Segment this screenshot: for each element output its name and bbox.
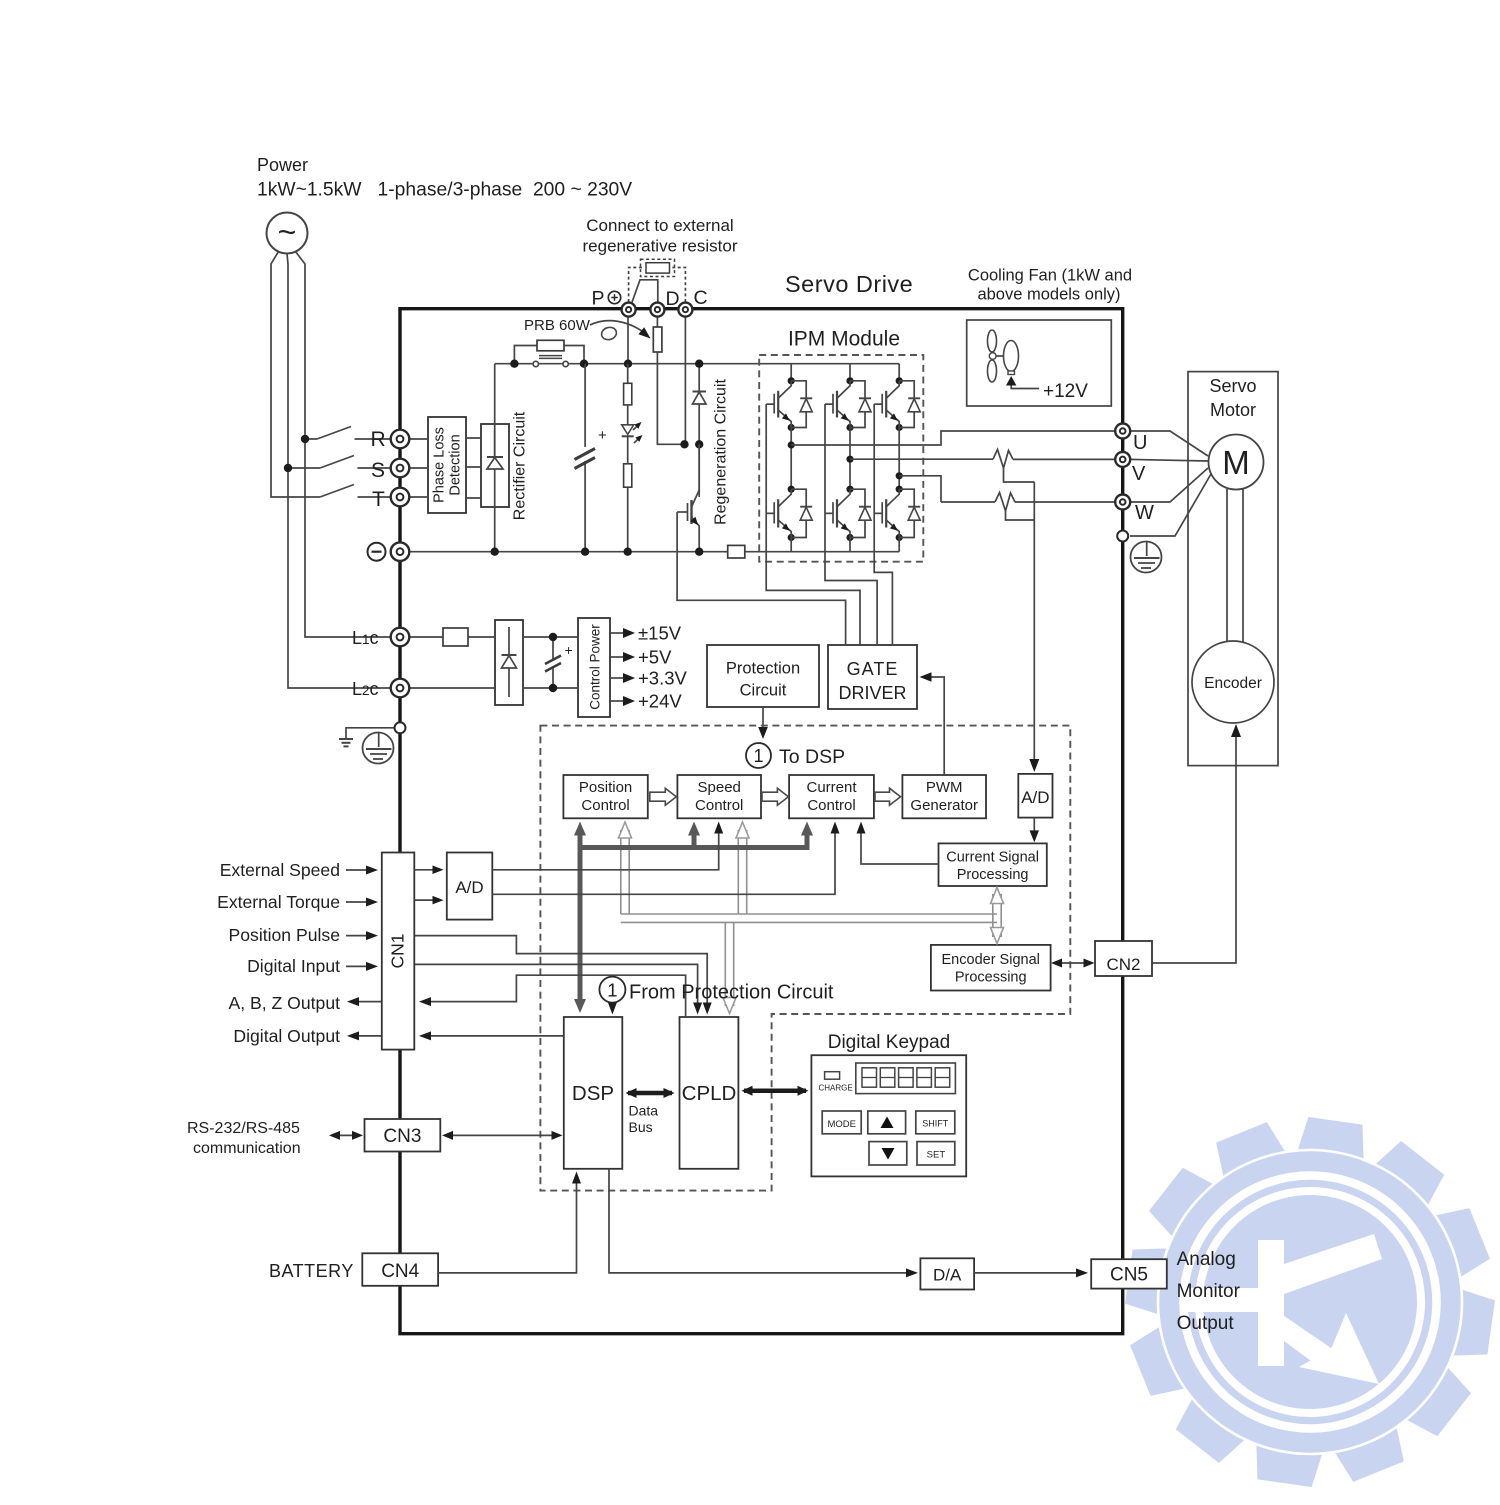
svg-text:PRB 60W: PRB 60W — [524, 317, 591, 334]
svg-text:Output: Output — [1177, 1313, 1235, 1334]
svg-text:~: ~ — [278, 214, 297, 250]
svg-text:Phase Loss: Phase Loss — [432, 427, 448, 503]
svg-text:Current Signal: Current Signal — [946, 850, 1039, 866]
svg-text:V: V — [1132, 463, 1146, 485]
svg-text:Monitor: Monitor — [1177, 1281, 1241, 1302]
svg-text:Circuit: Circuit — [740, 682, 787, 700]
svg-text:+: + — [598, 427, 607, 444]
svg-text:Encoder Signal: Encoder Signal — [942, 952, 1040, 968]
svg-text:Digital Input: Digital Input — [247, 956, 340, 976]
svg-text:+3.3V: +3.3V — [638, 668, 688, 689]
svg-text:Processing: Processing — [955, 970, 1027, 986]
svg-text:Analog: Analog — [1177, 1249, 1236, 1270]
svg-text:Bus: Bus — [629, 1119, 653, 1135]
svg-text:Control Power: Control Power — [588, 624, 603, 710]
svg-text:D/A: D/A — [933, 1266, 962, 1285]
svg-text:D: D — [666, 288, 680, 310]
svg-text:MODE: MODE — [827, 1119, 856, 1130]
svg-text:SHIFT: SHIFT — [922, 1118, 949, 1128]
svg-text:Power: Power — [257, 155, 308, 175]
svg-text:CHARGE: CHARGE — [819, 1084, 853, 1093]
svg-text:BATTERY: BATTERY — [269, 1261, 354, 1281]
svg-text:+12V: +12V — [1043, 381, 1088, 402]
svg-text:U: U — [1133, 432, 1147, 454]
svg-text:To DSP: To DSP — [779, 746, 845, 768]
svg-text:CN3: CN3 — [383, 1126, 421, 1147]
svg-text:Cooling Fan (1kW and: Cooling Fan (1kW and — [968, 267, 1132, 285]
svg-text:External Speed: External Speed — [220, 860, 340, 880]
svg-text:External Torque: External Torque — [217, 892, 340, 912]
svg-text:CN5: CN5 — [1110, 1265, 1148, 1286]
svg-text:Regeneration Circuit: Regeneration Circuit — [713, 379, 730, 525]
svg-text:1kW~1.5kW 1-phase/3-phase 2: 1kW~1.5kW 1-phase/3-phase 200 ~ 230V — [257, 180, 632, 201]
svg-text:communication: communication — [193, 1140, 301, 1157]
svg-text:above models only): above models only) — [977, 286, 1120, 304]
svg-text:Control: Control — [695, 797, 743, 814]
svg-text:A/D: A/D — [1021, 788, 1049, 807]
svg-text:+24V: +24V — [638, 691, 682, 712]
svg-text:Processing: Processing — [957, 867, 1029, 883]
svg-text:Servo Drive: Servo Drive — [785, 271, 913, 297]
svg-text:Motor: Motor — [1210, 400, 1256, 420]
svg-text:±15V: ±15V — [638, 623, 682, 644]
svg-text:Digital Keypad: Digital Keypad — [828, 1032, 951, 1053]
svg-text:C: C — [694, 287, 708, 309]
svg-text:GATE: GATE — [847, 659, 899, 679]
svg-text:SET: SET — [927, 1149, 946, 1160]
svg-text:CN4: CN4 — [381, 1261, 419, 1282]
svg-text:1: 1 — [607, 980, 617, 1001]
svg-text:M: M — [1222, 444, 1250, 481]
svg-text:Servo: Servo — [1209, 376, 1256, 396]
svg-text:Generator: Generator — [910, 797, 978, 814]
svg-text:T: T — [372, 488, 385, 511]
svg-text:P: P — [592, 288, 605, 310]
svg-text:CN1: CN1 — [388, 933, 408, 968]
svg-text:regenerative resistor: regenerative resistor — [583, 237, 738, 256]
svg-text:A/D: A/D — [455, 878, 483, 897]
svg-text:Speed: Speed — [698, 779, 741, 796]
svg-text:+: + — [565, 642, 573, 658]
svg-text:CPLD: CPLD — [682, 1082, 737, 1105]
svg-text:R: R — [371, 428, 386, 451]
svg-text:Encoder: Encoder — [1204, 675, 1262, 692]
svg-text:Rectifier Circuit: Rectifier Circuit — [512, 411, 529, 520]
svg-text:Control: Control — [807, 797, 855, 814]
svg-text:Connect to external: Connect to external — [586, 216, 733, 235]
svg-text:1: 1 — [753, 746, 763, 766]
svg-text:CN2: CN2 — [1106, 955, 1140, 974]
svg-text:A, B, Z Output: A, B, Z Output — [229, 993, 341, 1013]
svg-text:PWM: PWM — [926, 779, 963, 796]
svg-text:Control: Control — [581, 797, 629, 814]
svg-text:+5V: +5V — [638, 647, 672, 668]
svg-text:Position Pulse: Position Pulse — [229, 925, 341, 945]
svg-text:Detection: Detection — [448, 434, 464, 495]
svg-text:From Protection Circuit: From Protection Circuit — [629, 982, 834, 1004]
svg-text:DSP: DSP — [572, 1082, 614, 1105]
svg-text:Position: Position — [579, 779, 632, 796]
svg-text:Current: Current — [806, 779, 857, 796]
svg-text:Data: Data — [629, 1103, 659, 1119]
svg-text:W: W — [1135, 502, 1154, 524]
svg-text:Digital Output: Digital Output — [233, 1026, 340, 1046]
svg-text:Protection: Protection — [726, 660, 800, 678]
svg-text:S: S — [371, 459, 385, 482]
svg-text:DRIVER: DRIVER — [838, 683, 906, 703]
svg-text:IPM Module: IPM Module — [788, 328, 900, 351]
svg-text:RS-232/RS-485: RS-232/RS-485 — [187, 1120, 300, 1137]
